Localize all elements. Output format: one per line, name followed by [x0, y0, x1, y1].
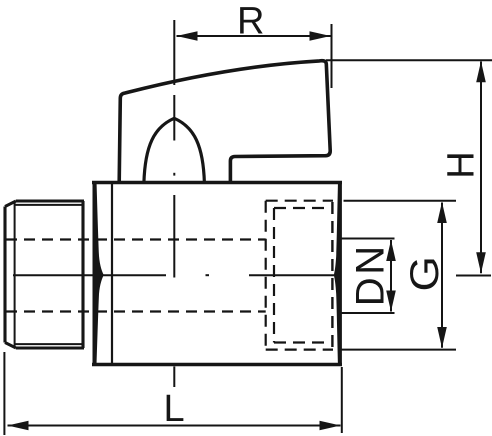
- svg-text:L: L: [164, 388, 185, 430]
- svg-text:DN: DN: [349, 243, 393, 306]
- svg-text:R: R: [237, 1, 264, 43]
- svg-text:G: G: [403, 256, 448, 291]
- svg-text:H: H: [441, 151, 483, 178]
